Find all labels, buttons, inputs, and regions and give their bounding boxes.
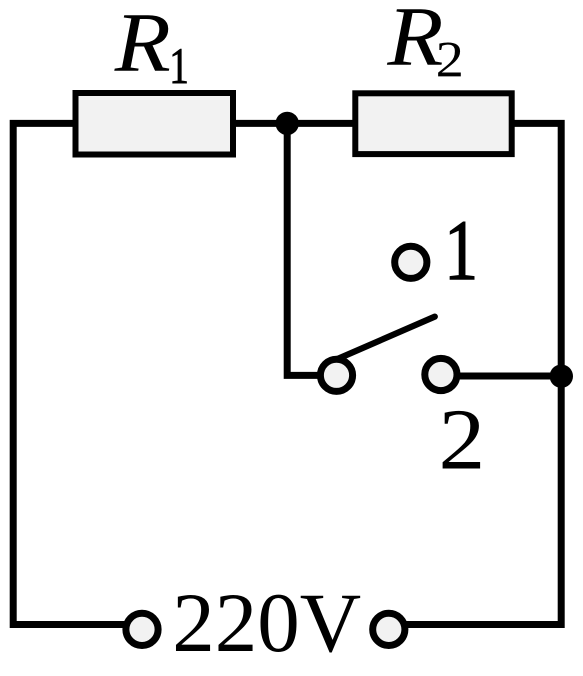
battery left terminal circle bbox=[126, 613, 158, 645]
node: junction dot on right bus at switch level bbox=[550, 365, 573, 388]
switch common terminal circle bbox=[320, 359, 352, 391]
node: junction dot between R1 and R2 bbox=[276, 112, 299, 135]
svg-text:R: R bbox=[114, 0, 171, 90]
svg-text:1: 1 bbox=[169, 37, 189, 94]
resistor R1 bbox=[76, 93, 234, 155]
svg-text:2: 2 bbox=[436, 31, 464, 88]
wire: R1 right to R2 left through top junction bbox=[233, 120, 356, 127]
wire: right loop from R2 right side down to battery right terminal bbox=[389, 123, 561, 624]
label R2 bbox=[386, 0, 464, 88]
svg-text:1: 1 bbox=[444, 202, 478, 298]
svg-text:220V: 220V bbox=[172, 576, 361, 670]
wire: from top junction down to switch common terminal bbox=[287, 123, 336, 375]
wire: left loop from R1 left side down to battery left terminal bbox=[13, 123, 142, 624]
switch blade bbox=[331, 317, 435, 362]
wire: switch contact 2 to right bus junction bbox=[441, 373, 561, 380]
battery right terminal circle bbox=[373, 613, 405, 645]
label R1 bbox=[114, 0, 189, 94]
switch contact 1 circle bbox=[395, 246, 427, 278]
svg-text:2: 2 bbox=[439, 392, 486, 488]
switch contact 2 circle bbox=[425, 358, 457, 390]
resistor R2 bbox=[355, 93, 511, 154]
